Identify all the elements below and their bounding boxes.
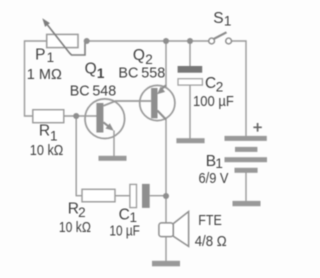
ground speaker [152, 261, 180, 267]
wire Q2 collector down to speaker [165, 119, 167, 223]
svg-text:Q: Q [85, 61, 97, 78]
svg-text:1: 1 [47, 50, 55, 65]
switch S1 [209, 32, 232, 44]
node speaker junction [163, 193, 169, 199]
svg-text:BC 558: BC 558 [118, 66, 165, 82]
ground C2 [176, 138, 204, 143]
node C2 junction [187, 38, 193, 44]
capacitor C2 [178, 66, 203, 85]
wire base junction down to R2 [76, 116, 82, 196]
node P1 wiper junction [84, 38, 90, 44]
svg-text:10 kΩ: 10 kΩ [59, 220, 91, 236]
svg-text:C: C [119, 206, 130, 223]
wire R1 right to Q1 base [64, 115, 97, 117]
wire supply to C2 [189, 41, 191, 66]
wire supply rail top [87, 40, 209, 42]
ground battery [233, 201, 261, 206]
wire C1 to speaker junction [150, 195, 166, 197]
wire switch to battery [232, 41, 247, 136]
plus sign [253, 123, 261, 132]
speaker FTE [159, 212, 189, 247]
transistor Q2 [140, 85, 175, 120]
wire Q1 collector to Q2 base [103, 101, 151, 106]
svg-text:1: 1 [50, 128, 58, 143]
svg-text:Q: Q [133, 47, 145, 64]
wire R2 to C1 [115, 195, 130, 197]
wire P1 left terminal down to R1 [25, 41, 47, 116]
svg-text:1 MΩ: 1 MΩ [27, 67, 62, 83]
wire C2 to ground [189, 85, 191, 139]
node Q2 emitter junction [163, 38, 169, 44]
svg-text:FTE: FTE [198, 213, 222, 229]
wire speaker to ground [165, 237, 167, 261]
svg-text:BC 548: BC 548 [70, 84, 117, 100]
svg-text:10 µF: 10 µF [109, 224, 139, 240]
node Q1 base junction [73, 113, 79, 119]
svg-text:P: P [35, 46, 45, 63]
resistor R1 [33, 110, 64, 123]
svg-text:2: 2 [78, 205, 86, 220]
svg-text:R: R [39, 123, 50, 140]
capacitor C1 [130, 184, 150, 208]
svg-text:C: C [205, 75, 216, 92]
transistor Q1 [85, 99, 125, 139]
svg-text:1: 1 [97, 66, 105, 81]
wire Q1 emitter to ground [113, 131, 115, 157]
svg-text:1: 1 [215, 156, 223, 171]
potentiometer P1 [42, 18, 85, 55]
svg-text:S: S [213, 10, 223, 27]
ground Q1 emitter [99, 156, 127, 161]
svg-text:6/9 V: 6/9 V [199, 171, 229, 187]
svg-text:2: 2 [216, 79, 224, 94]
wire supply to Q2 emitter [165, 41, 167, 87]
svg-text:100 µF: 100 µF [193, 94, 234, 110]
svg-text:1: 1 [224, 13, 232, 28]
resistor R2 [82, 189, 115, 202]
wire battery to ground [245, 173, 247, 202]
svg-text:10 kΩ: 10 kΩ [30, 143, 64, 159]
battery B1 [225, 136, 268, 173]
svg-text:4/8 Ω: 4/8 Ω [195, 234, 227, 250]
